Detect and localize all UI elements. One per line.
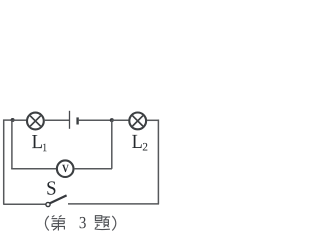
node J2 (right voltmeter tap) xyxy=(110,118,114,122)
voltmeter U1 xyxy=(57,160,74,177)
wire bottom left to switch xyxy=(3,203,46,205)
caption right parenthesis xyxy=(112,216,116,231)
caption numeral 3 xyxy=(80,217,86,228)
wire voltmeter branch J1 down xyxy=(11,120,13,169)
node J1 (left voltmeter tap) xyxy=(11,118,15,122)
wire left outer vertical xyxy=(3,120,5,205)
caption character DI (第) xyxy=(52,215,66,230)
wire right vertical xyxy=(157,120,159,205)
battery BT long plate (+) xyxy=(69,111,71,129)
wire voltmeter to branch vertical xyxy=(74,168,112,170)
wire node J1 to lamp L1 xyxy=(13,119,27,121)
voltmeter letter V xyxy=(62,165,69,172)
wire lamp L1 to battery xyxy=(44,119,70,121)
caption left parenthesis xyxy=(45,216,48,231)
switch S pivot xyxy=(46,202,50,206)
lamp L1 xyxy=(27,113,44,130)
wire switch to bottom-right corner xyxy=(68,203,159,205)
label L1 xyxy=(32,135,47,151)
wire voltmeter branch up to J2 xyxy=(111,120,113,169)
wire lamp L2 to top-right corner xyxy=(147,119,159,121)
wire battery to node J2 xyxy=(79,119,112,121)
wire left to voltmeter xyxy=(11,168,56,170)
battery BT short plate (-) xyxy=(76,117,78,124)
wire top-left horizontal to node xyxy=(3,119,12,121)
label L2 xyxy=(132,135,147,151)
label S xyxy=(47,181,55,194)
switch S blade xyxy=(50,195,67,203)
wire node J2 to lamp L2 xyxy=(112,119,129,121)
lamp L2 xyxy=(129,113,146,130)
caption character TI (题) xyxy=(95,216,110,230)
